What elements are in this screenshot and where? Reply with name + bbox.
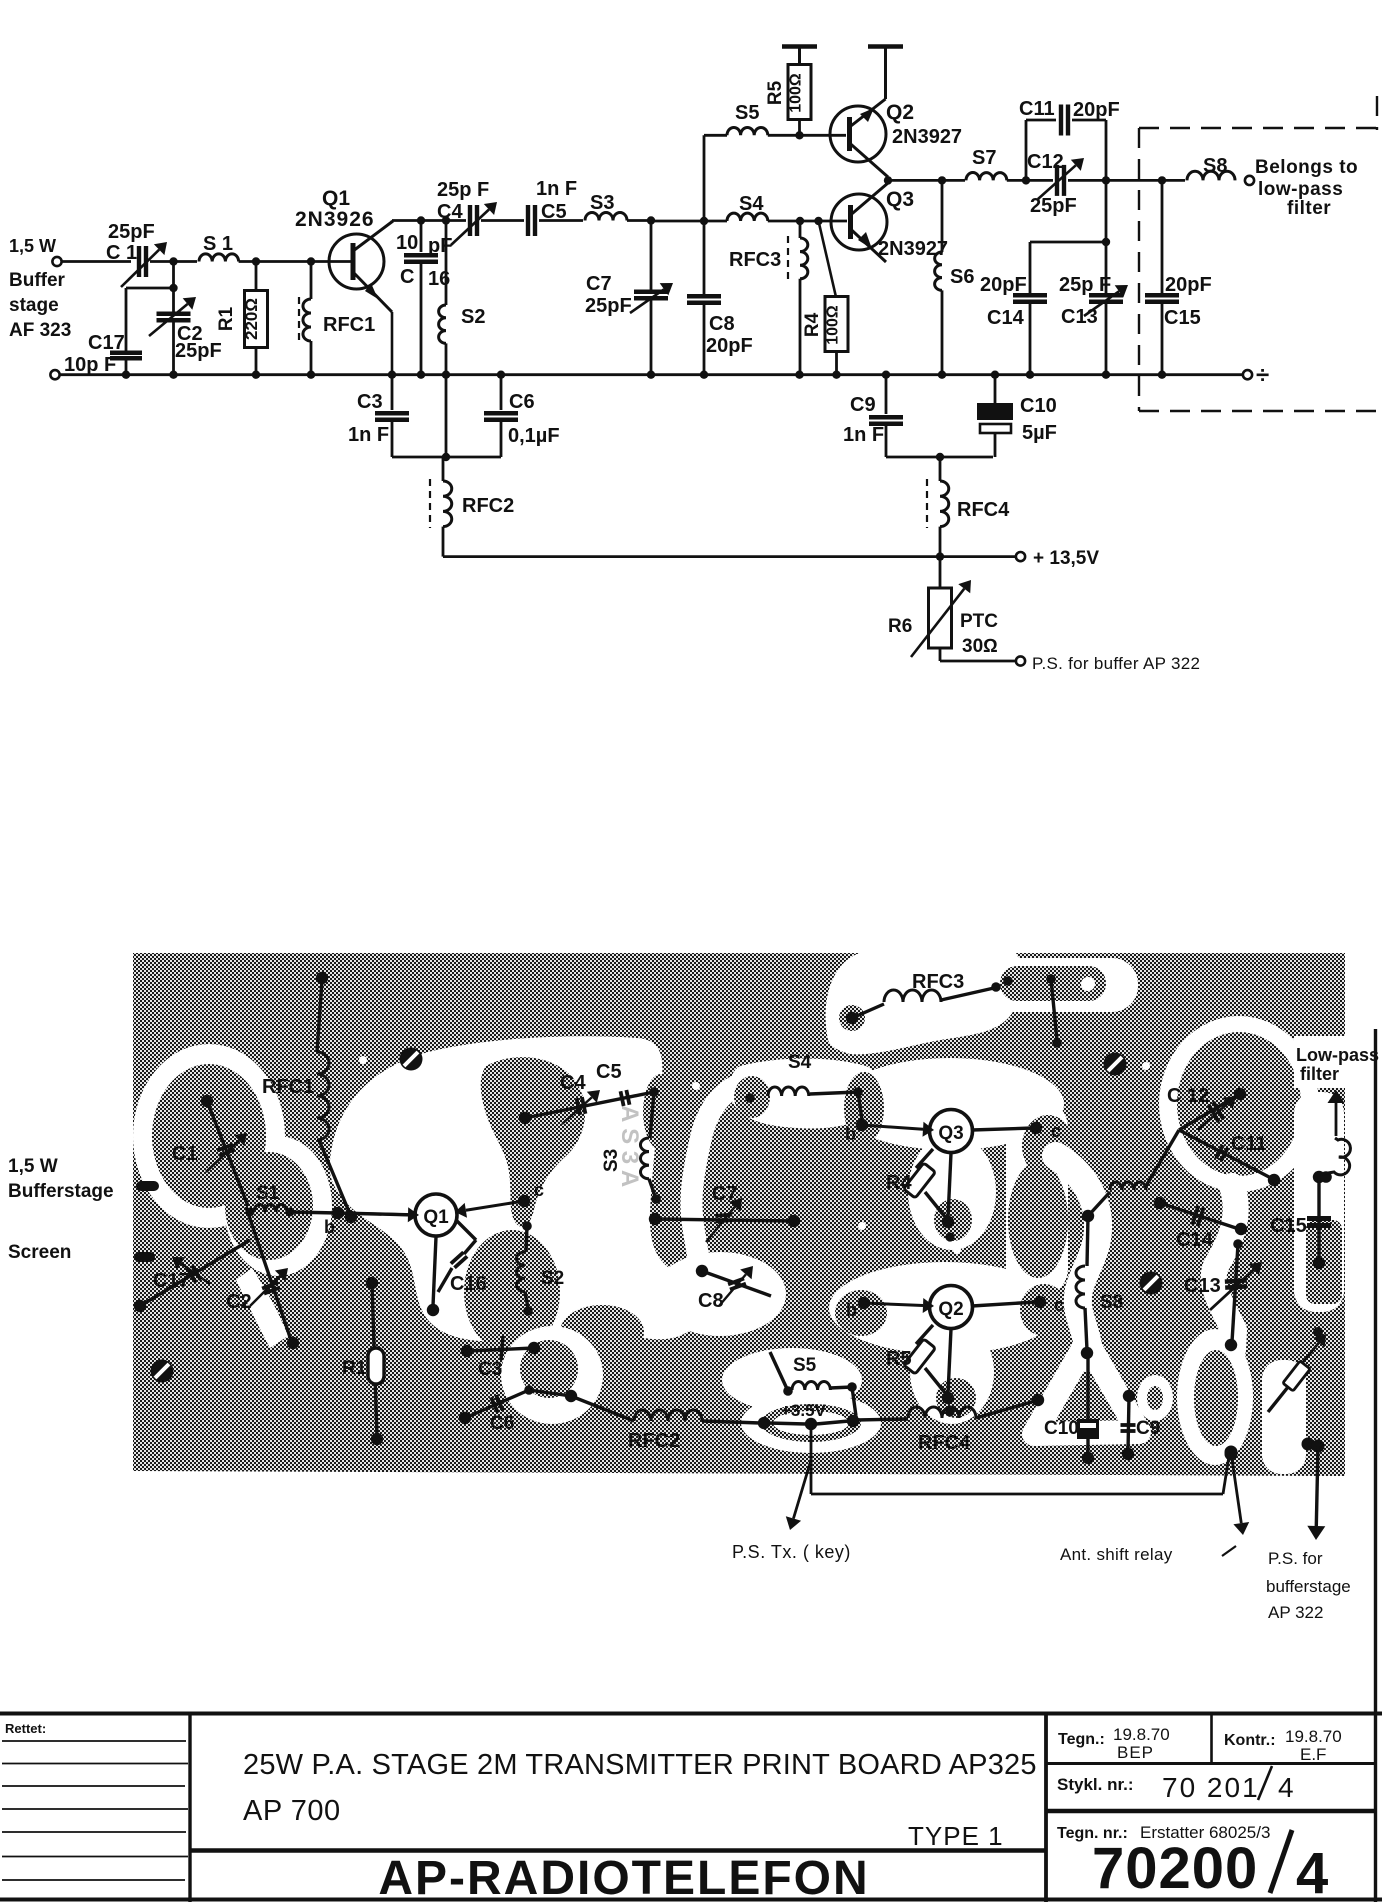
PCB white strip C15 bbox=[1294, 1092, 1344, 1312]
svg-text:C3: C3 bbox=[357, 391, 383, 413]
capacitor C5 1nF bbox=[526, 205, 530, 236]
title divider bbox=[190, 1848, 1046, 1853]
output terminal to low-pass filter bbox=[1245, 176, 1254, 185]
PCB output coil S8 to low-pass filter bbox=[1320, 1171, 1332, 1183]
svg-text:25p F: 25p F bbox=[437, 179, 489, 201]
svg-text:RFC1: RFC1 bbox=[262, 1076, 314, 1098]
svg-text:70200: 70200 bbox=[1092, 1836, 1258, 1901]
svg-text:R6: R6 bbox=[888, 616, 912, 637]
inductor S5 bbox=[727, 127, 768, 135]
svg-text:Belongs to: Belongs to bbox=[1255, 157, 1358, 178]
PCB bottom right trimmer bbox=[1268, 1372, 1300, 1412]
capacitor C15 20pF bbox=[1161, 180, 1164, 295]
svg-text:C13: C13 bbox=[1184, 1275, 1221, 1297]
PCB edge pad marks left bbox=[136, 1181, 159, 1191]
svg-text:C1: C1 bbox=[172, 1143, 198, 1165]
svg-text:5µF: 5µF bbox=[1022, 422, 1057, 444]
svg-text:C12: C12 bbox=[1027, 151, 1064, 173]
svg-text:C3: C3 bbox=[478, 1359, 502, 1380]
PCB white pool Q3 bbox=[836, 1058, 1064, 1150]
svg-text:C: C bbox=[400, 266, 414, 288]
svg-text:R1: R1 bbox=[216, 306, 237, 331]
svg-text:20pF: 20pF bbox=[706, 335, 753, 357]
capacitor C12 25pF trimmer bbox=[1055, 165, 1059, 196]
svg-text:S3: S3 bbox=[601, 1149, 622, 1172]
RF choke RFC4 bbox=[939, 457, 942, 481]
svg-text:b: b bbox=[845, 1124, 856, 1144]
svg-text:C7: C7 bbox=[586, 273, 612, 295]
inductor S4 bbox=[727, 213, 768, 221]
svg-text:25pF: 25pF bbox=[1030, 195, 1077, 217]
svg-text:30Ω: 30Ω bbox=[962, 636, 998, 657]
svg-text:R5: R5 bbox=[886, 1348, 912, 1370]
svg-text:S5: S5 bbox=[793, 1355, 817, 1376]
RF choke RFC3 bbox=[799, 221, 802, 238]
svg-text:C17: C17 bbox=[88, 332, 125, 354]
PCB Q2 emitter to pad bbox=[948, 1329, 951, 1394]
PCB component Q1 bbox=[415, 1194, 457, 1236]
svg-text:25p F: 25p F bbox=[1059, 274, 1111, 296]
svg-text:S4: S4 bbox=[788, 1052, 812, 1073]
PCB gray island S1 text bbox=[225, 1152, 313, 1260]
PCB white channel C14 C13 bbox=[1214, 1186, 1236, 1350]
svg-text:C9: C9 bbox=[850, 394, 876, 416]
inductor S2 bbox=[445, 221, 448, 306]
PCB component R5 bbox=[916, 1325, 933, 1344]
svg-text:AP 700: AP 700 bbox=[243, 1795, 341, 1827]
svg-text:2N3927: 2N3927 bbox=[878, 238, 948, 260]
PCB white pool C8 bbox=[654, 1252, 786, 1336]
PCB mounting screw 3 bbox=[1140, 1272, 1163, 1295]
svg-text:1n F: 1n F bbox=[843, 424, 884, 446]
PCB component C16 bbox=[456, 1220, 476, 1240]
svg-text:1,5 W: 1,5 W bbox=[9, 236, 56, 256]
svg-text:E.F: E.F bbox=[1300, 1745, 1326, 1764]
PCB white channel S8 bbox=[1056, 1156, 1098, 1358]
PCB mounting screw 1 bbox=[400, 1048, 423, 1071]
svg-text:Rettet:: Rettet: bbox=[5, 1721, 46, 1736]
svg-text:S4: S4 bbox=[739, 193, 764, 215]
capacitor C10 5uF electrolytic bbox=[994, 375, 997, 403]
RF choke RFC2 bbox=[442, 457, 445, 481]
svg-text:C8: C8 bbox=[709, 313, 735, 335]
inductor S1 bbox=[199, 254, 239, 262]
svg-text:P.S. for: P.S. for bbox=[1268, 1549, 1323, 1568]
svg-text:R5: R5 bbox=[765, 80, 786, 105]
svg-text:S8: S8 bbox=[1100, 1292, 1123, 1313]
svg-text:C8: C8 bbox=[698, 1290, 724, 1312]
svg-text:19.8.70: 19.8.70 bbox=[1113, 1725, 1170, 1744]
transistor Q1 2N3926 bbox=[329, 234, 384, 289]
capacitor C1 (25pF trimmer) bbox=[137, 246, 141, 277]
arrow ant shift relay bbox=[1231, 1452, 1241, 1523]
svg-text:+ 13,5V: + 13,5V bbox=[1033, 548, 1099, 569]
svg-text:S5: S5 bbox=[735, 102, 759, 124]
PCB component C6 trimmer bbox=[459, 1412, 471, 1424]
svg-text:100Ω: 100Ω bbox=[788, 73, 805, 113]
svg-text:C7: C7 bbox=[712, 1183, 738, 1205]
svg-text:PTC: PTC bbox=[960, 611, 998, 632]
svg-text:70 201: 70 201 bbox=[1162, 1772, 1260, 1803]
svg-text:C9: C9 bbox=[1136, 1418, 1160, 1439]
svg-text:1n F: 1n F bbox=[536, 178, 577, 200]
svg-text:C16: C16 bbox=[450, 1273, 487, 1295]
wire S5 to Q2 base bbox=[704, 134, 727, 137]
PCB component C7 trimmer bbox=[649, 1213, 661, 1225]
PCB gray island top pads bbox=[1000, 966, 1106, 1001]
PCB gray patch S2 area bbox=[464, 1230, 560, 1354]
inductor S6 bbox=[941, 180, 944, 252]
right page border bbox=[1374, 1029, 1377, 1902]
svg-text:C14: C14 bbox=[1176, 1229, 1214, 1251]
svg-text:C11: C11 bbox=[1019, 98, 1055, 120]
svg-text:Tegn.:: Tegn.: bbox=[1058, 1731, 1105, 1748]
svg-text:pF: pF bbox=[428, 235, 452, 257]
svg-text:C5: C5 bbox=[596, 1061, 622, 1083]
svg-text:Q3: Q3 bbox=[886, 188, 914, 211]
svg-text:S7: S7 bbox=[972, 147, 996, 169]
PCB white S4 band bbox=[730, 1059, 879, 1129]
svg-text:bufferstage: bufferstage bbox=[1266, 1577, 1351, 1596]
PCB white oval +3.5V bbox=[741, 1393, 881, 1453]
svg-text:C15: C15 bbox=[1270, 1215, 1307, 1237]
wire input to C1 bbox=[62, 260, 131, 263]
PCB component R4 bbox=[916, 1149, 933, 1168]
capacitor C2 (25pF trimmer) bbox=[172, 288, 175, 314]
PCB component Q3 with pads bbox=[930, 1110, 973, 1153]
PCB layout halftone board bbox=[133, 953, 1345, 1476]
svg-text:25pF: 25pF bbox=[585, 295, 632, 317]
wire S1 to Q1 base bbox=[239, 260, 353, 263]
svg-text:C6: C6 bbox=[509, 391, 535, 413]
svg-text:P.S. Tx. ( key): P.S. Tx. ( key) bbox=[732, 1542, 851, 1562]
svg-text:RFC2: RFC2 bbox=[462, 495, 514, 517]
svg-text:AF 323: AF 323 bbox=[9, 320, 71, 341]
wire out node to S7 bbox=[888, 179, 965, 182]
svg-text:20pF: 20pF bbox=[1165, 274, 1212, 296]
svg-text:+3.5V: +3.5V bbox=[781, 1401, 827, 1420]
RF choke RFC1 bbox=[310, 262, 313, 300]
svg-text:4: 4 bbox=[1296, 1841, 1328, 1902]
PCB white notch behind low-pass label bbox=[1294, 1036, 1345, 1088]
PCB white pool Q1 C4 C5 ghost strip bbox=[330, 1036, 701, 1341]
svg-text:S1: S1 bbox=[256, 1183, 280, 1204]
PCB gray comma island C4 pad bbox=[481, 1057, 585, 1227]
capacitor C8 20pF bbox=[703, 221, 706, 296]
resistor R6 PTC 30 ohm bbox=[939, 557, 942, 588]
PCB gray island ring1 bbox=[152, 1064, 266, 1208]
rettet box bbox=[188, 1712, 191, 1902]
dashed enclosure low-pass filter bbox=[1139, 127, 1378, 129]
wire node to C8 node bbox=[651, 220, 704, 223]
PCB component C8 trimmer bbox=[696, 1265, 708, 1277]
inductor S8 bbox=[1187, 171, 1235, 180]
PCB white ring left bbox=[133, 1044, 285, 1228]
svg-text:S8: S8 bbox=[1203, 155, 1227, 177]
node junction C2 branch bbox=[172, 262, 175, 289]
svg-text:Ant. shift relay: Ant. shift relay bbox=[1060, 1545, 1173, 1564]
capacitor C16 10pF bbox=[420, 221, 423, 253]
svg-text:low-pass: low-pass bbox=[1258, 179, 1343, 200]
svg-text:RFC2: RFC2 bbox=[628, 1430, 680, 1452]
PCB white triangle C10 bbox=[1034, 1342, 1139, 1434]
svg-text:TYPE 1: TYPE 1 bbox=[908, 1821, 1004, 1851]
PCB white S1 zone bbox=[224, 1136, 332, 1276]
PCB white lobe S5 bbox=[722, 1348, 862, 1412]
svg-text:10: 10 bbox=[396, 232, 418, 254]
PCB component C4 trimmer bbox=[519, 1112, 531, 1124]
svg-text:c: c bbox=[1054, 1295, 1064, 1315]
PCB component C1 trimmer bbox=[201, 1095, 213, 1107]
PCB gray strip C15 bbox=[1306, 1220, 1342, 1304]
capacitor C4 25pF trimmer bbox=[468, 205, 472, 236]
svg-text:1,5 W: 1,5 W bbox=[8, 1156, 58, 1177]
PCB small white ring bottom bbox=[1137, 1375, 1173, 1421]
svg-text:25pF: 25pF bbox=[175, 340, 222, 362]
wire S7 to C12 bbox=[1007, 179, 1053, 182]
PCB white channel C7 bbox=[681, 1080, 752, 1320]
svg-text:Q1: Q1 bbox=[423, 1207, 449, 1228]
wire Q2 collector to chassis bbox=[884, 47, 887, 99]
supply wire +13.5V bbox=[443, 555, 1016, 558]
svg-text:S2: S2 bbox=[461, 306, 485, 328]
svg-text:R1: R1 bbox=[342, 1358, 367, 1379]
wire S4 to Q3 base bbox=[704, 220, 727, 223]
svg-text:RFC4: RFC4 bbox=[957, 499, 1010, 521]
svg-text:C11: C11 bbox=[1231, 1133, 1267, 1155]
node Q2 emitter Q3 collector bbox=[884, 176, 892, 184]
svg-text:R4: R4 bbox=[802, 312, 823, 337]
svg-text:RFC3: RFC3 bbox=[729, 249, 781, 271]
svg-text:20pF: 20pF bbox=[1073, 99, 1120, 121]
svg-text:Q2: Q2 bbox=[938, 1299, 963, 1320]
svg-text:÷: ÷ bbox=[1256, 362, 1269, 389]
input terminal top bbox=[52, 257, 61, 266]
PCB white top pads strip bbox=[985, 958, 1138, 1012]
PCB component Q2 with pads bbox=[930, 1286, 973, 1329]
svg-text:filter: filter bbox=[1287, 198, 1331, 219]
capacitor C17 10pF bbox=[126, 287, 174, 290]
PCB white column mid right bbox=[1006, 1098, 1068, 1298]
svg-text:2N3927: 2N3927 bbox=[892, 126, 962, 148]
PCB small white holes bbox=[359, 1056, 367, 1064]
svg-text:1n F: 1n F bbox=[348, 424, 389, 446]
svg-text:Low-pass: Low-pass bbox=[1296, 1045, 1379, 1065]
PCB component S7 squiggle to C12 node bbox=[1088, 1192, 1110, 1216]
svg-text:10p F: 10p F bbox=[64, 354, 116, 376]
capacitor C3 1nF bbox=[391, 375, 394, 410]
ground rail terminal with divide mark bbox=[1243, 370, 1252, 379]
wire PS Tx key from +3.5V pad bbox=[810, 1424, 813, 1494]
svg-text:0,1µF: 0,1µF bbox=[508, 425, 560, 447]
svg-text:P.S. for buffer AP 322: P.S. for buffer AP 322 bbox=[1032, 654, 1200, 673]
svg-text:25W P.A. STAGE 2M TRANSMITT: 25W P.A. STAGE 2M TRANSMITTER PRINT BOAR… bbox=[243, 1749, 1037, 1781]
svg-text:b: b bbox=[846, 1300, 857, 1320]
svg-text:25pF: 25pF bbox=[108, 221, 155, 243]
ground rail bottom bbox=[50, 370, 59, 379]
svg-text:C17: C17 bbox=[153, 1270, 190, 1292]
capacitor C9 1nF bbox=[885, 375, 888, 414]
PCB bottom right pads bbox=[1225, 1448, 1238, 1461]
svg-text:C10: C10 bbox=[1044, 1418, 1079, 1439]
wire S3 to node bbox=[627, 219, 651, 222]
resistor R4 100 ohm bbox=[819, 221, 837, 297]
svg-text:4: 4 bbox=[1278, 1772, 1294, 1803]
svg-text:AP 322: AP 322 bbox=[1268, 1603, 1323, 1622]
PCB gray disc S3 bbox=[643, 1074, 679, 1150]
wire C12 to S8 node bbox=[1068, 179, 1185, 182]
svg-text:Q3: Q3 bbox=[938, 1123, 963, 1144]
PCB component R1 bbox=[366, 1277, 378, 1289]
capacitor C14 20pF bbox=[1030, 241, 1106, 244]
PCB component C3 cross bbox=[461, 1345, 473, 1357]
svg-text:R4: R4 bbox=[886, 1172, 912, 1194]
transistor Q3 2N3927 bbox=[831, 194, 887, 250]
PCB white pool Q2 bbox=[829, 1262, 1061, 1354]
capacitor C7 25pF trimmer bbox=[650, 221, 653, 292]
svg-text:C2: C2 bbox=[226, 1291, 252, 1313]
svg-text:S3: S3 bbox=[590, 192, 614, 214]
PCB white ring right bbox=[1159, 1016, 1319, 1192]
inductor S7 bbox=[966, 173, 1007, 181]
svg-text:C4: C4 bbox=[560, 1072, 586, 1094]
wire Q1 collector to C4 bbox=[392, 219, 466, 222]
svg-text:S6: S6 bbox=[950, 266, 974, 288]
PCB component C2 trimmer bbox=[246, 1207, 291, 1340]
svg-text:Stykl. nr.:: Stykl. nr.: bbox=[1057, 1775, 1134, 1794]
svg-text:Q2: Q2 bbox=[886, 101, 914, 124]
title right block divider bbox=[1044, 1712, 1048, 1902]
svg-text:2N3926: 2N3926 bbox=[295, 208, 375, 231]
svg-text:Buffer: Buffer bbox=[9, 270, 66, 291]
svg-text:c: c bbox=[1051, 1121, 1061, 1141]
transistor Q2 2N3927 bbox=[830, 106, 886, 162]
inductor S3 bbox=[585, 212, 627, 220]
PCB gray disc right ring bbox=[1177, 1032, 1301, 1176]
svg-text:C 1: C 1 bbox=[106, 242, 137, 264]
wire C5 to S3 bbox=[539, 219, 583, 222]
svg-text:c: c bbox=[534, 1180, 544, 1200]
svg-text:100Ω: 100Ω bbox=[825, 305, 842, 345]
PCB gray island in column bbox=[1008, 1162, 1068, 1278]
PCB component RFC1 bbox=[316, 972, 328, 984]
title block top border bbox=[0, 1712, 1382, 1716]
capacitor C6 0.1uF bbox=[500, 375, 503, 410]
svg-text:filter: filter bbox=[1300, 1064, 1339, 1084]
chassis bar above R5 bbox=[798, 47, 801, 65]
PCB component C5 bbox=[621, 1091, 624, 1106]
PCB component C17 trimmer bbox=[134, 1300, 146, 1312]
svg-text:Screen: Screen bbox=[8, 1242, 71, 1263]
svg-text:C4: C4 bbox=[437, 201, 463, 223]
svg-text:C6: C6 bbox=[490, 1413, 514, 1434]
PCB white RFC3 blob bbox=[826, 953, 1023, 1054]
PCB mounting screw 2 bbox=[1104, 1053, 1127, 1076]
svg-text:Q1: Q1 bbox=[322, 187, 350, 210]
title block bottom border bbox=[0, 1898, 1382, 1902]
wire C4 to C5 bbox=[481, 219, 524, 222]
capacitor C11 20pF loop bbox=[1025, 120, 1028, 180]
svg-text:S2: S2 bbox=[541, 1268, 564, 1289]
svg-text:BEP: BEP bbox=[1117, 1743, 1154, 1762]
svg-text:RFC3: RFC3 bbox=[912, 971, 964, 993]
svg-text:stage: stage bbox=[9, 295, 59, 316]
svg-text:C15: C15 bbox=[1164, 307, 1201, 329]
svg-text:20pF: 20pF bbox=[980, 274, 1027, 296]
wire up to S5 bbox=[703, 135, 706, 221]
svg-text:C13: C13 bbox=[1061, 306, 1098, 328]
svg-text:RFC1: RFC1 bbox=[323, 314, 375, 336]
PCB white pool C6 RFC2 bbox=[501, 1326, 603, 1424]
svg-text:S 1: S 1 bbox=[203, 233, 233, 255]
resistor R5 100 ohm bbox=[798, 119, 801, 135]
PCB white band far bottom right bbox=[1262, 1360, 1306, 1474]
wire R6 to PS terminal bbox=[940, 660, 1016, 663]
svg-text:Kontr.:: Kontr.: bbox=[1224, 1732, 1276, 1749]
svg-text:b: b bbox=[324, 1217, 335, 1237]
svg-text:RFC4: RFC4 bbox=[918, 1432, 971, 1454]
svg-text:AP-RADIOTELEFON: AP-RADIOTELEFON bbox=[378, 1852, 869, 1902]
capacitor C13 25pF trimmer bbox=[1105, 180, 1108, 295]
wire C1 to S1 bbox=[150, 260, 197, 263]
PCB white band bottom right bbox=[1177, 1329, 1253, 1465]
svg-text:C 12: C 12 bbox=[1167, 1085, 1209, 1107]
resistor R1 220 ohm bbox=[255, 262, 258, 292]
PCB gray patch below ghost strip bbox=[560, 1305, 644, 1359]
svg-text:A S 3 A: A S 3 A bbox=[616, 1105, 643, 1187]
PCB Q3 emitter to pad bbox=[948, 1153, 951, 1218]
svg-text:19.8.70: 19.8.70 bbox=[1285, 1727, 1342, 1746]
wire to ant shift relay pad bbox=[811, 1493, 1223, 1496]
svg-text:C10: C10 bbox=[1020, 395, 1057, 417]
svg-text:Bufferstage: Bufferstage bbox=[8, 1181, 114, 1202]
arrow PS for bufferstage bbox=[1312, 1440, 1325, 1453]
PCB gray discs transistor pads bbox=[734, 1076, 770, 1118]
svg-text:C14: C14 bbox=[987, 307, 1025, 329]
svg-text:220Ω: 220Ω bbox=[242, 298, 261, 340]
PCB mounting screw 4 bbox=[151, 1360, 174, 1383]
